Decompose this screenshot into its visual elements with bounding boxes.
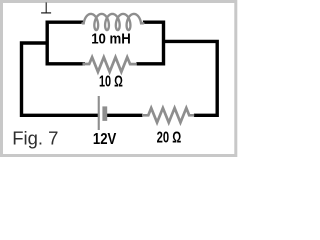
wire: right bracket of parallel section [136, 22, 163, 64]
battery B1 long plate [98, 96, 100, 130]
svg-text:Fig. 7: Fig. 7 [12, 127, 58, 148]
resistor R1 zigzag (10 ohm) [83, 57, 137, 72]
battery B1 short plate [102, 106, 107, 121]
border frame (decorative) [2, 2, 236, 156]
inductor L1 coil [82, 14, 143, 30]
wire: left connector + outer-left vertical + bottom wire to battery [22, 43, 99, 115]
resistor R2 zigzag (20 ohm) [142, 108, 194, 123]
svg-text:12V: 12V [93, 131, 117, 148]
svg-text:10 mH: 10 mH [91, 31, 131, 47]
ground tick at top [41, 2, 51, 13]
svg-text:10 Ω: 10 Ω [99, 74, 123, 91]
wire: battery to resistor R2 [107, 114, 143, 117]
wire: left bracket of parallel section [47, 22, 85, 64]
wire: right connector + outer-right vertical + bottom wire to resistor R2 [164, 41, 218, 115]
svg-text:20 Ω: 20 Ω [157, 130, 182, 147]
